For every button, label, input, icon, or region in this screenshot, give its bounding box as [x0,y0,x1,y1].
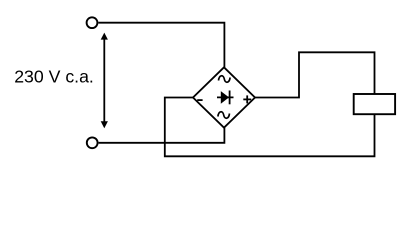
load resistor rectangle [354,94,395,114]
bridge rectifier diamond [193,67,255,127]
plus sign DC+ [243,95,251,103]
diode inside bridge [217,91,234,105]
AC tilde top [219,76,231,82]
wire: bottom terminal to bridge AC bottom [99,128,225,143]
terminal bottom-left [87,137,98,148]
svg-text:230 V c.a.: 230 V c.a. [14,67,94,87]
wire: bridge DC- left vertex to bottom rail to load bottom [165,98,375,157]
voltage double arrow [101,33,108,129]
AC tilde bottom [218,112,230,118]
wire: top terminal to bridge AC top [98,23,224,68]
minus sign DC- [197,99,202,101]
wire: bridge DC+ right vertex over the top to load top [255,52,375,97]
terminal top-left [87,17,98,28]
